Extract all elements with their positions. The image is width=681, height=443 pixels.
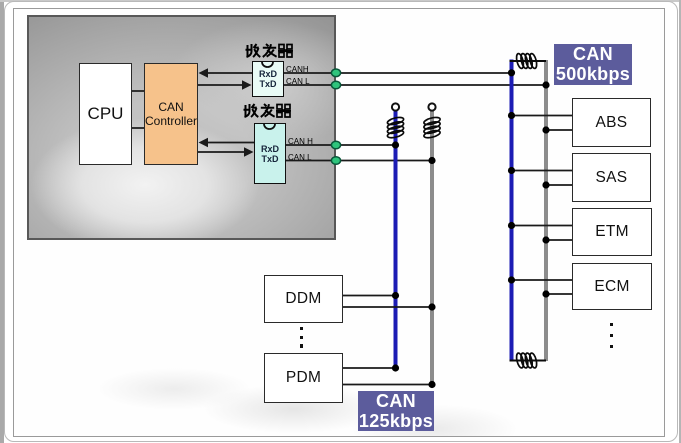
- label CAN L (transceiver 2): [288, 153, 312, 162]
- junction SAS gray: [542, 181, 549, 188]
- page left gray strip: [0, 0, 4, 443]
- transceiver 1 notch: [262, 62, 273, 67]
- wire ABS upper: [512, 115, 573, 117]
- wire PDM lower: [343, 384, 433, 386]
- node CAN L green (T2): [331, 157, 340, 165]
- coil 500k bottom terminator: [515, 352, 538, 368]
- wire T1 TxD with arrow to transceiver: [198, 80, 252, 90]
- wire ECM upper: [512, 279, 573, 281]
- coil on 125k gray: [423, 116, 441, 139]
- label CAN 125kbps: [358, 391, 434, 431]
- label CAN L (transceiver 1): [286, 77, 310, 86]
- wire SAS lower: [546, 184, 572, 186]
- node CANL green (T1): [331, 81, 340, 89]
- wire ETM lower: [546, 239, 572, 241]
- wire 500k top terminator link: [510, 60, 547, 62]
- page top gray line: [0, 0, 681, 2]
- junction ETM gray: [542, 236, 549, 243]
- junction DDM gray: [428, 303, 435, 310]
- block transceiver 1: [252, 61, 284, 97]
- wire CAN L T2 to 125k gray bus: [286, 160, 433, 162]
- wire CPU-controller lower: [132, 127, 144, 129]
- block ETM: [572, 208, 652, 256]
- wire SAS upper: [512, 170, 573, 172]
- wire CANL T1 to 500k gray bus: [284, 84, 546, 86]
- bus 125k CAN H (blue): [394, 111, 398, 369]
- wire ECM lower: [546, 293, 572, 295]
- bus 500k CAN H (blue): [510, 60, 514, 362]
- block CAN Controller: [144, 63, 198, 165]
- block ABS: [572, 98, 651, 147]
- bus 125k CAN L (gray): [430, 111, 434, 385]
- junction SAS blue: [508, 167, 515, 174]
- coil on 125k blue: [387, 116, 405, 139]
- open node circle on 125k blue: [392, 103, 399, 110]
- junction ECM gray: [542, 290, 549, 297]
- wire T2 RxD with arrow to controller: [199, 138, 255, 148]
- block DDM: [264, 275, 343, 323]
- block transceiver 2: [254, 123, 286, 184]
- label CANH (transceiver 1): [286, 65, 309, 74]
- wire ABS lower: [546, 129, 572, 131]
- block PDM: [264, 353, 343, 403]
- junction CANL/gray: [542, 81, 549, 88]
- ellipsis DDM/PDM: [300, 327, 305, 348]
- bus 500k CAN L (gray): [544, 60, 548, 361]
- wire 500k bottom terminator link: [510, 360, 547, 362]
- node CAN H green (T2): [331, 141, 340, 149]
- junction T2 CANL/125k gray: [428, 157, 435, 164]
- open node circle on 125k gray: [428, 103, 435, 110]
- glyph label 收发器 (transceiver 2): [244, 104, 292, 117]
- junction ABS gray: [542, 126, 549, 133]
- junction DDM blue: [392, 292, 399, 299]
- glyph label 收发器 (transceiver 1): [246, 44, 294, 57]
- junction ETM blue: [508, 222, 515, 229]
- ellipsis below ECM: [610, 323, 615, 348]
- wire T2 TxD with arrow to transceiver: [198, 147, 254, 157]
- block CPU: [79, 63, 132, 165]
- junction ABS blue: [508, 112, 515, 119]
- junction PDM gray: [428, 381, 435, 388]
- label CAN 500kbps: [554, 44, 632, 85]
- wire T1 RxD with arrow to controller: [199, 68, 253, 78]
- junction T2 CANH/125k blue: [392, 141, 399, 148]
- junction PDM blue: [392, 364, 399, 371]
- wire CPU-controller upper: [132, 90, 144, 92]
- block ECM: [572, 263, 652, 310]
- wire ETM upper: [512, 225, 573, 227]
- wire CANH T1 to 500k blue bus: [284, 72, 512, 74]
- wire CAN H T2 to 125k blue bus: [286, 144, 396, 146]
- junction ECM blue: [508, 276, 515, 283]
- wire DDM upper: [343, 295, 396, 297]
- junction CANH/blue: [508, 69, 515, 76]
- transceiver 2 notch: [264, 124, 275, 129]
- gray node panel: [27, 15, 336, 240]
- wire PDM upper: [343, 367, 396, 369]
- wire DDM lower: [343, 306, 433, 308]
- label CAN H (transceiver 2): [288, 137, 313, 146]
- coil 500k top terminator: [515, 53, 538, 69]
- page right gray line: [679, 0, 681, 443]
- block SAS: [572, 153, 651, 202]
- node CANH green (T1): [331, 69, 340, 77]
